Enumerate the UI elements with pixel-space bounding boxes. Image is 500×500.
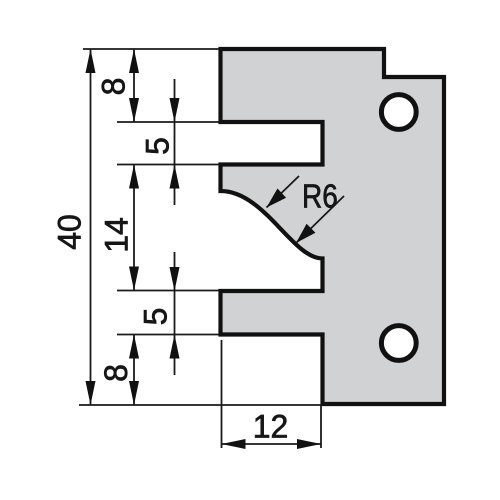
svg-text:R6: R6 (302, 178, 338, 215)
arrow dim 14 lower (129, 267, 139, 291)
arrowhead R6 upper leader (262, 189, 286, 213)
dim line 5 bottom (174, 252, 176, 375)
ext bottom y405 (79, 404, 321, 406)
dim line 40 (90, 49, 92, 405)
ext slot1 bottom y164.5 (117, 164, 219, 166)
dim line 14 (133, 165, 135, 291)
ext 12 left vertical (221, 340, 223, 448)
arrow dim 8-top lower (129, 98, 139, 122)
svg-text:8: 8 (98, 364, 134, 382)
dim line 8 top (133, 49, 135, 122)
top mounting hole (381, 95, 416, 130)
arrowhead R6 lower leader (292, 224, 316, 248)
arrow dim 12 left (222, 439, 246, 449)
arrow dim 5-top lower (outside) (170, 165, 180, 189)
ext tab top y290.5 (117, 290, 219, 292)
svg-text:14: 14 (99, 217, 135, 253)
plate body (profile cutter plate) (221, 49, 445, 404)
ext 12 right vertical (320, 406, 322, 448)
arrow dim 8-bottom upper (129, 335, 139, 359)
arrow dim 5-bottom upper (outside) (170, 267, 180, 291)
svg-text:40: 40 (51, 214, 87, 250)
svg-text:12: 12 (253, 409, 289, 445)
arrow dim 8-bottom lower (129, 381, 139, 405)
arrow dim 5-bottom lower (outside) (170, 335, 180, 359)
extension lines (79, 49, 344, 448)
svg-text:5: 5 (138, 308, 174, 326)
ext tab bottom y334.5 (117, 334, 219, 336)
dim line 12 (222, 443, 322, 445)
dim line 5 top (174, 79, 176, 205)
svg-text:5: 5 (139, 137, 175, 155)
arrow dim 8-top upper (129, 49, 139, 73)
arrow dim 12 right (297, 439, 321, 449)
svg-text:8: 8 (95, 78, 131, 96)
arrow dim 40 bottom (86, 381, 96, 405)
ext top y49 (83, 48, 219, 50)
arrow dim 5-top upper (outside) (170, 98, 180, 122)
arrow dim 40 top (86, 49, 96, 73)
arrow dim 14 upper (129, 165, 139, 189)
dim line 8 bottom (133, 335, 135, 406)
leader line R6 lower (296, 196, 344, 243)
ext slot1 top y122 (117, 121, 219, 123)
bottom mounting hole (381, 326, 416, 361)
leader line R6 upper (267, 176, 300, 208)
